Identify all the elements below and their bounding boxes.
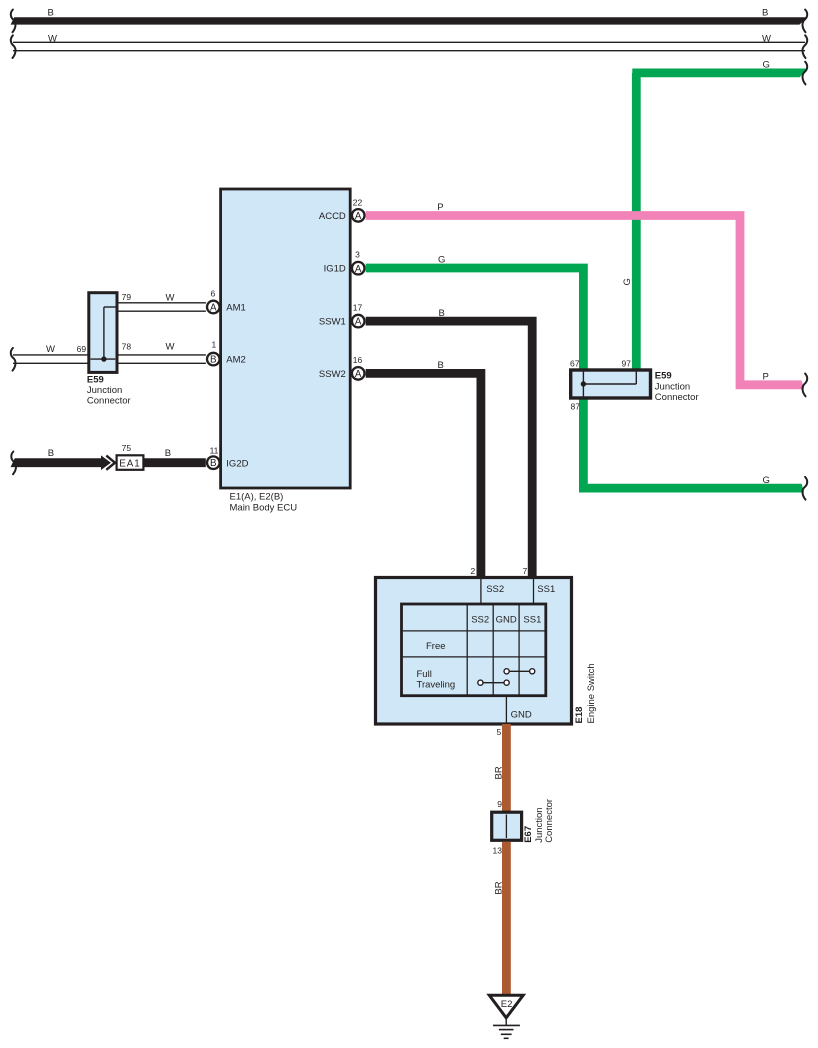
break symbol right of bus B — [803, 10, 808, 33]
svg-text:W: W — [762, 33, 771, 44]
svg-text:BR: BR — [494, 766, 505, 779]
break symbol left of bus B — [11, 10, 16, 33]
wire bus B (top) — [10, 17, 809, 24]
svg-text:G: G — [438, 255, 445, 266]
engine switch E18 body — [376, 578, 572, 725]
pin stub SS2 — [480, 579, 482, 605]
svg-text:G: G — [763, 475, 770, 486]
chevron into EA1 — [106, 456, 115, 470]
svg-text:1: 1 — [212, 340, 217, 350]
svg-text:13: 13 — [493, 845, 503, 855]
svg-text:B: B — [48, 448, 54, 459]
svg-text:97: 97 — [622, 358, 632, 368]
svg-text:B: B — [210, 458, 217, 469]
Main Body ECU E1(A), E2(B) — [221, 189, 351, 488]
svg-text:9: 9 — [497, 799, 502, 809]
junction dot inside E59 right — [581, 381, 586, 386]
wire B from left edge to IG2D — [10, 458, 103, 467]
break symbol right of bus W — [803, 35, 808, 58]
svg-text:SSW1: SSW1 — [319, 317, 346, 328]
ground E2 triangle — [489, 995, 523, 1018]
svg-text:E59: E59 — [655, 371, 672, 382]
junction connector E67 — [492, 812, 522, 840]
svg-text:IG2D: IG2D — [226, 458, 248, 469]
svg-text:W: W — [48, 33, 57, 44]
pin ACCD 22(A) — [352, 209, 365, 222]
svg-text:Main Body ECU: Main Body ECU — [230, 503, 298, 514]
pin stub SS1 — [533, 579, 535, 605]
svg-text:B: B — [438, 360, 444, 371]
svg-text:W: W — [166, 342, 175, 353]
svg-text:A: A — [210, 302, 217, 313]
GND pin stub — [505, 696, 507, 723]
svg-text:B: B — [210, 355, 217, 366]
svg-text:11: 11 — [210, 446, 219, 456]
svg-text:75: 75 — [122, 443, 132, 453]
svg-text:SS2: SS2 — [471, 614, 489, 625]
svg-text:Junction: Junction — [655, 381, 690, 392]
break symbol left of wire B (IG2D) — [11, 452, 16, 475]
svg-text:6: 6 — [211, 289, 216, 299]
wire W from E59 pin 79 to AM1 (hollow two-line wire) — [117, 302, 206, 304]
break symbol right of bus G — [803, 62, 808, 85]
svg-text:3: 3 — [355, 250, 360, 260]
svg-text:5: 5 — [497, 727, 502, 737]
wire bus G (top right) — [632, 69, 808, 78]
svg-text:SS1: SS1 — [523, 614, 541, 625]
wire B from SSW2 to engine switch pin 2 — [366, 373, 481, 577]
svg-text:AM2: AM2 — [226, 355, 246, 366]
svg-text:A: A — [355, 264, 362, 275]
pin SSW1 17(A) — [352, 315, 365, 328]
svg-text:69: 69 — [77, 344, 87, 354]
break symbol left of bus W — [11, 35, 16, 58]
pin IG1D 3(A) — [352, 262, 365, 275]
junction connector E59 (left) — [89, 293, 117, 373]
svg-text:Connector: Connector — [544, 799, 555, 843]
svg-text:E67: E67 — [523, 826, 534, 843]
pin SSW2 16(A) — [352, 367, 365, 380]
svg-text:B: B — [165, 448, 171, 459]
svg-text:22: 22 — [353, 198, 363, 208]
wire B from EA1 to IG2D — [143, 458, 205, 467]
svg-text:79: 79 — [122, 292, 132, 302]
svg-text:E2: E2 — [501, 999, 513, 1010]
wire G from E59 pin 87 to right edge — [583, 397, 808, 488]
svg-text:A: A — [355, 211, 362, 222]
internal wiring of E59 left — [104, 306, 117, 308]
svg-text:GND: GND — [496, 614, 517, 625]
junction dot inside E59 left — [101, 356, 106, 361]
svg-text:P: P — [437, 202, 443, 213]
svg-text:B: B — [48, 8, 54, 19]
wire green vertical from bus G to E59 pin 97 — [632, 73, 641, 371]
arrowhead into EA1 — [101, 455, 111, 470]
contact GND-SS1 — [507, 670, 533, 672]
svg-text:Free: Free — [426, 641, 446, 652]
svg-text:BR: BR — [494, 881, 505, 894]
break symbol right of wire P — [803, 374, 808, 397]
svg-text:2: 2 — [471, 566, 476, 576]
contact SS2-GND — [480, 682, 506, 684]
svg-text:78: 78 — [122, 341, 132, 351]
svg-text:SSW2: SSW2 — [319, 369, 346, 380]
svg-text:SS1: SS1 — [537, 584, 555, 595]
svg-text:SS2: SS2 — [486, 584, 504, 595]
svg-text:EA1: EA1 — [119, 458, 141, 469]
svg-text:Junction: Junction — [87, 385, 122, 396]
svg-text:Connector: Connector — [655, 392, 699, 403]
pin IG2D 11(B) — [207, 456, 220, 469]
pin AM2 1(B) — [207, 353, 220, 366]
junction connector E59 (right) — [571, 370, 651, 398]
connector EA1 — [117, 455, 144, 470]
break symbol right of lower wire G — [803, 477, 808, 500]
wire W from left edge through E59 to AM2 (hollow two-line wire) — [13, 354, 206, 356]
svg-text:E59: E59 — [87, 374, 104, 385]
wire W centerline inside E59 left — [91, 358, 116, 360]
wire B from SSW1 to engine switch pin 7 — [366, 321, 533, 577]
wire P from ACCD pin to right edge — [366, 216, 809, 385]
svg-text:E1(A), E2(B): E1(A), E2(B) — [230, 492, 284, 503]
svg-text:16: 16 — [353, 355, 363, 365]
svg-text:87: 87 — [571, 402, 581, 412]
svg-text:17: 17 — [353, 303, 363, 313]
wire BR from E67 to ground E2 — [502, 842, 511, 996]
svg-text:A: A — [355, 317, 362, 328]
svg-text:GND: GND — [511, 709, 532, 720]
ground stem — [505, 1018, 507, 1025]
internal wiring of E67 — [505, 815, 507, 839]
internal wiring of E59 right — [582, 372, 584, 397]
svg-text:Engine Switch: Engine Switch — [586, 663, 597, 723]
svg-text:B: B — [762, 8, 768, 19]
wire BR from engine switch GND to E67 — [502, 724, 511, 813]
svg-text:W: W — [46, 344, 55, 355]
svg-text:P: P — [763, 372, 769, 383]
svg-text:7: 7 — [523, 566, 528, 576]
break symbol left of wire W (69) — [11, 348, 16, 371]
svg-text:G: G — [622, 278, 633, 285]
wire G from IG1D pin to E59 pin 67 — [366, 268, 584, 371]
ground bars — [493, 1024, 520, 1026]
svg-text:G: G — [763, 60, 770, 71]
wire bus W (top, hollow two-line wire) — [13, 41, 805, 43]
svg-text:ACCD: ACCD — [319, 211, 346, 222]
svg-text:Connector: Connector — [87, 396, 131, 407]
svg-text:B: B — [439, 308, 445, 319]
svg-text:AM1: AM1 — [226, 303, 246, 314]
pin AM1 6(A) — [207, 301, 220, 314]
svg-text:E18: E18 — [574, 707, 585, 724]
svg-text:IG1D: IG1D — [324, 264, 346, 275]
svg-text:Traveling: Traveling — [417, 679, 456, 690]
svg-text:W: W — [166, 292, 175, 303]
svg-text:A: A — [355, 369, 362, 380]
svg-text:67: 67 — [570, 358, 580, 368]
switch state table — [402, 604, 546, 696]
